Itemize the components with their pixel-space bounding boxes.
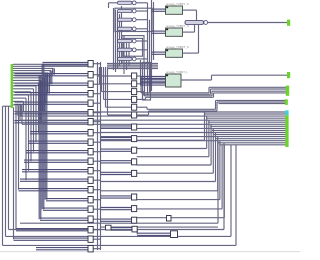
svg-text:omega_TUBXT_S: omega_TUBXT_S — [166, 45, 189, 49]
svg-text:omega_TUB2T_L: omega_TUB2T_L — [166, 70, 189, 74]
svg-text:omega_TUBXT_S: omega_TUBXT_S — [166, 2, 189, 6]
